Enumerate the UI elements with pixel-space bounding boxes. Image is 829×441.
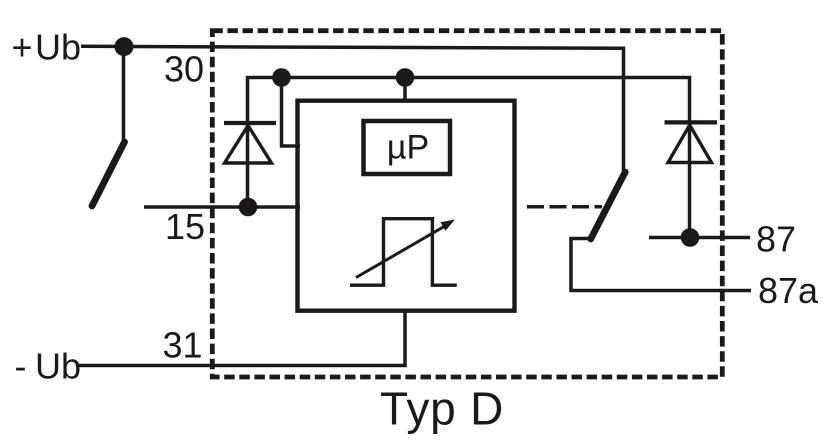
wire 87a contact	[571, 239, 751, 291]
wire rail to module top	[403, 78, 407, 101]
junction rail B	[396, 68, 415, 87]
wire module bottom to terminal 31 / -Ub	[79, 310, 405, 366]
svg-text:31: 31	[162, 325, 202, 366]
junction diode D2 / 87	[681, 228, 700, 247]
microprocessor U2 box	[364, 121, 451, 174]
wire 30 rail (D1 cathode to D2 cathode)	[248, 78, 690, 124]
waveform arrowhead	[440, 220, 455, 231]
svg-text:Typ D: Typ D	[380, 382, 504, 434]
wire switch drop	[122, 47, 126, 142]
svg-text:15: 15	[165, 206, 205, 247]
relay coil link (dashed)	[527, 205, 602, 209]
wire terminal 87	[649, 236, 750, 240]
wire terminal 15	[144, 205, 300, 209]
svg-text:87a: 87a	[758, 270, 819, 311]
diode D1 axis lead	[246, 123, 250, 207]
module U1 box	[298, 101, 515, 311]
junction rail A	[272, 68, 291, 87]
junction diode D1 / 15	[239, 198, 258, 217]
diode D1 cathode bar	[224, 121, 276, 125]
waveform arrow shaft	[356, 227, 444, 278]
diode D2 cathode bar	[665, 120, 718, 124]
junction +Ub / switch	[115, 37, 134, 56]
svg-text:Ub: Ub	[35, 27, 81, 68]
svg-text:30: 30	[164, 48, 204, 89]
switch S1 blade (ignition switch, open)	[92, 142, 125, 206]
svg-text:-: -	[15, 346, 27, 387]
diode D2 axis lead	[688, 122, 692, 238]
relay housing (dashed border)	[212, 31, 722, 377]
diode D2 triangle	[668, 125, 712, 163]
svg-text:87: 87	[756, 218, 796, 259]
wire rail to module left	[282, 78, 301, 147]
svg-text:+: +	[12, 27, 33, 68]
wire +Ub rail to relay common	[81, 46, 624, 171]
relay contact K1 blade	[591, 172, 626, 239]
diode D1 triangle	[225, 126, 272, 164]
svg-text:Ub: Ub	[35, 346, 81, 387]
adjustable pulse waveform icon	[350, 219, 457, 286]
svg-text:µP: µP	[387, 128, 429, 166]
